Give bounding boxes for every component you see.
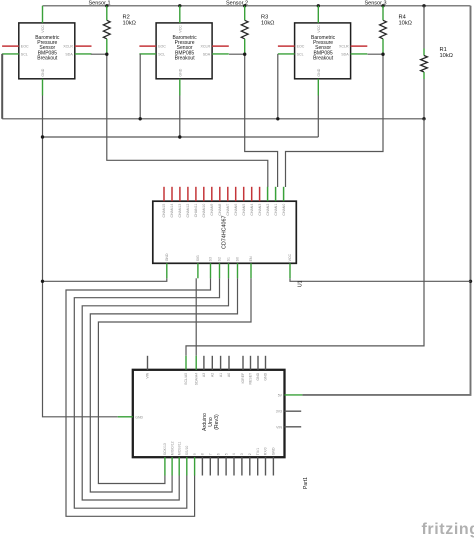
sensor 2 EOC pin leg (unconnected) (139, 45, 156, 47)
node junction SCL bus / R1 bottom (422, 117, 425, 120)
svg-text:SCL: SCL (21, 52, 28, 56)
label Sensor 3 (364, 0, 386, 6)
svg-text:8: 8 (201, 453, 205, 455)
Part1 pin 3V3 leg (right) (276, 410, 301, 414)
svg-text:GND: GND (178, 68, 182, 76)
svg-text:SDA/A4: SDA/A4 (194, 373, 198, 386)
wire sensor2 SCL drop to SCL bus (139, 54, 141, 119)
U1 pin S3 leg (209, 257, 213, 278)
Part1 pin SCK/13 leg (bottom) (163, 443, 167, 475)
sensor 3 SDA pin leg (351, 53, 368, 55)
svg-text:CHAN9: CHAN9 (210, 204, 214, 216)
svg-text:Sensor 3: Sensor 3 (364, 0, 386, 6)
svg-text:GND: GND (256, 372, 260, 380)
Part1 pin 2 leg (bottom) (248, 453, 252, 475)
svg-text:CHAN0: CHAN0 (282, 204, 286, 216)
sensor 2 XCLR pin leg (unconnected) (212, 45, 229, 47)
svg-text:GND: GND (135, 415, 143, 419)
svg-text:SS/10: SS/10 (185, 446, 189, 456)
Part1 pin A2 leg (top) (211, 356, 215, 377)
svg-text:XCLR: XCLR (63, 45, 73, 49)
U1 pin CHAN0 leg (282, 187, 286, 216)
U1 pin CHAN1 leg (274, 187, 278, 216)
svg-text:S0: S0 (236, 257, 240, 261)
Part1 pin A0 leg (top) (227, 356, 231, 377)
U1 pin CHAN8 leg (unconnected) (218, 187, 222, 216)
wire R1/SCL down and across to Arduino SCL pin (186, 119, 424, 356)
svg-text:CHAN14: CHAN14 (170, 204, 174, 218)
svg-text:SDA: SDA (203, 52, 211, 56)
svg-text:10kΩ: 10kΩ (261, 21, 274, 27)
svg-text:GND: GND (41, 68, 45, 76)
sensor 1 GND pin leg (42, 79, 44, 96)
transistor Part1 Arduino Uno (Rev3) box (133, 370, 285, 457)
node junction SCL bus / sensor3 SCL (276, 117, 279, 120)
svg-text:S3: S3 (209, 257, 213, 261)
svg-text:CHAN11: CHAN11 (194, 204, 198, 218)
sensor 3 SCL pin leg (278, 53, 295, 55)
svg-text:CHAN6: CHAN6 (234, 204, 238, 216)
resistor R1 10k pullup SCL bus (421, 6, 453, 119)
Part1 pin TX/1 leg (bottom) (256, 448, 260, 476)
node junction GND bus / sensor1 GND vertical (41, 135, 44, 138)
svg-text:SCL/A5: SCL/A5 (184, 373, 188, 385)
svg-text:SCL: SCL (158, 52, 165, 56)
svg-text:CHAN2: CHAN2 (266, 204, 270, 216)
svg-text:5: 5 (224, 453, 228, 455)
sensor 1 EOC pin leg (unconnected) (2, 45, 19, 47)
svg-text:CHAN12: CHAN12 (186, 204, 190, 218)
sensor 1 SDA pin leg (75, 53, 92, 55)
wire sensor3 SCL drop to SCL bus (277, 54, 279, 119)
svg-text:Part1: Part1 (303, 477, 309, 489)
svg-text:VIN: VIN (146, 372, 150, 378)
U1 pin EN leg (249, 256, 253, 278)
wire sensor2 GND drop to GND bus (179, 96, 181, 138)
wire SCL bus from sensor1 SCL down left edge and across (2, 54, 424, 119)
resistor R2 10k pullup sensor1 SDA (103, 6, 136, 55)
Part1 pin A1 leg (top) (219, 356, 223, 377)
svg-text:fritzing: fritzing (422, 521, 474, 538)
svg-text:VCC: VCC (288, 253, 292, 261)
resistor R3 10k pullup sensor2 SDA (241, 6, 274, 55)
wire 5V rail from sensor1 VCC across top (43, 5, 471, 7)
svg-text:VCC: VCC (317, 25, 321, 33)
label Sensor 1 (88, 0, 110, 6)
Part1 pin VIN leg (right) (276, 425, 301, 429)
svg-text:U1: U1 (298, 280, 304, 287)
svg-text:CHAN7: CHAN7 (226, 204, 230, 216)
svg-text:CHAN8: CHAN8 (218, 204, 222, 216)
U1 pin GND leg (165, 253, 169, 278)
sensor S2 Barometric Pressure Sensor BMP085 Breakout box (156, 23, 212, 79)
sensor 1 XCLR pin leg (unconnected) (75, 45, 92, 47)
node junction 5V rail / R1 top (422, 4, 425, 7)
Part1 pin 8 leg (bottom) (201, 453, 205, 475)
svg-text:10kΩ: 10kΩ (123, 21, 136, 27)
label Part1 (303, 477, 309, 489)
U1 pin CHAN15 leg (unconnected) (162, 187, 166, 218)
svg-text:RX/0: RX/0 (264, 447, 268, 455)
node junction 5V rail / sensor3 VCC (317, 4, 320, 7)
svg-text:CHAN10: CHAN10 (202, 204, 206, 218)
sensor 2 SCL pin leg (139, 53, 156, 55)
svg-text:EN: EN (249, 256, 253, 261)
wire U1 S2 to Arduino digital pin (74, 278, 219, 508)
U1 pin S0 leg (236, 257, 240, 278)
U1 pin CHAN4 leg (unconnected) (250, 187, 254, 216)
svg-text:4: 4 (232, 453, 236, 455)
svg-text:A0: A0 (227, 373, 231, 377)
Part1 pin 5V leg (right) (278, 393, 303, 397)
sensor 3 XCLR pin leg (unconnected) (351, 45, 368, 47)
label fritzing watermark (422, 521, 474, 538)
wire U1 S1 to Arduino digital pin (82, 278, 228, 500)
svg-text:A1: A1 (219, 373, 223, 377)
label Sensor 2 (226, 0, 248, 6)
svg-text:R3: R3 (261, 15, 268, 21)
op-amp U1 multiplexer CD74HC4067 box (153, 201, 296, 263)
svg-text:CHAN5: CHAN5 (242, 204, 246, 216)
resistor R4 10k pullup sensor3 SDA (380, 6, 412, 55)
Part1 pin 6 leg (bottom) (216, 453, 220, 475)
wire U1 S0 to Arduino digital pin (90, 278, 237, 492)
sensor 1 SCL pin leg (2, 53, 19, 55)
wire sensor1 GND down to Arduino GND (43, 96, 118, 417)
Part1 pin 5 leg (bottom) (224, 453, 228, 475)
svg-text:10kΩ: 10kΩ (399, 21, 412, 27)
Part1 pin SDA/A4 leg (top) (194, 356, 198, 385)
U1 pin CHAN6 leg (unconnected) (234, 187, 238, 216)
svg-text:GND: GND (272, 447, 276, 455)
svg-text:XCLR: XCLR (201, 45, 211, 49)
svg-text:MISO/12: MISO/12 (170, 441, 174, 455)
U1 pin S1 leg (227, 257, 231, 278)
node junction GND bus / sensor2 GND (178, 135, 181, 138)
wire sensor3 SDA to R4 to mux CHAN0 (286, 54, 384, 187)
Part1 pin RESET leg (top) (249, 356, 253, 385)
Part1 pin GND2 leg (top) (264, 356, 268, 381)
sensor 3 GND pin leg (317, 79, 319, 96)
svg-text:MOSI/11: MOSI/11 (177, 442, 181, 456)
sensor S1 Barometric Pressure Sensor BMP085 Breakout box (19, 23, 75, 79)
svg-text:10kΩ: 10kΩ (440, 53, 453, 59)
svg-text:VCC: VCC (41, 25, 45, 33)
U1 pin S2 leg (218, 257, 222, 278)
svg-text:A3: A3 (202, 373, 206, 377)
wire 5V down right edge to Arduino 5V pin (302, 6, 470, 395)
U1 pin CHAN2 leg (266, 187, 270, 216)
svg-text:EOC: EOC (21, 45, 29, 49)
svg-text:SCL: SCL (297, 52, 304, 56)
node junction 5V rail / R4 top (381, 4, 384, 7)
wire U1 EN to Arduino digital pin (98, 278, 251, 483)
svg-text:(Rev3): (Rev3) (214, 414, 220, 430)
svg-text:Sensor 2: Sensor 2 (226, 0, 248, 6)
svg-text:IOREF: IOREF (241, 373, 245, 384)
svg-text:RESET: RESET (249, 372, 253, 385)
U1 pin CHAN7 leg (unconnected) (226, 187, 230, 216)
Part1 pin VIN leg (top) (146, 356, 150, 379)
sensor S3 Barometric Pressure Sensor BMP085 Breakout box (295, 23, 351, 79)
node junction GND vertical / U1 GND wire (41, 280, 44, 283)
sensor 2 SDA pin leg (212, 53, 229, 55)
U1 pin CHAN9 leg (unconnected) (210, 187, 214, 216)
Part1 pin 3 leg (bottom) (240, 453, 244, 475)
wire sensor2 SDA to R3 to mux CHAN1 (229, 54, 278, 187)
sensor 2 GND pin leg (179, 79, 181, 96)
svg-text:A2: A2 (211, 373, 215, 377)
U1 pin CHAN14 leg (unconnected) (170, 187, 174, 218)
svg-text:3V3: 3V3 (276, 410, 282, 414)
wire U1 S3 to Arduino digital pin (66, 278, 211, 516)
svg-text:EOC: EOC (297, 45, 305, 49)
wire U1 GND to GND vertical (43, 278, 167, 281)
svg-text:Sensor 1: Sensor 1 (88, 0, 110, 6)
Part1 pin GND leg (top) (256, 356, 260, 381)
svg-text:CHAN4: CHAN4 (250, 204, 254, 216)
U1 pin SIG leg (196, 255, 200, 278)
Part1 pin MOSI/11 leg (bottom) (177, 442, 181, 476)
Part1 pin A3 leg (top) (202, 356, 206, 377)
node junction 5V rail / R3 top (243, 4, 246, 7)
Part1 pin SS/10 leg (bottom) (185, 446, 189, 476)
svg-text:SDA: SDA (341, 52, 349, 56)
U1 pin CHAN13 leg (unconnected) (178, 187, 182, 218)
U1 pin CHAN12 leg (unconnected) (186, 187, 190, 218)
wire GND bus (43, 136, 319, 138)
U1 pin VCC leg (288, 253, 292, 278)
svg-text:S1: S1 (227, 257, 231, 261)
node junction 5V rail / sensor2 VCC (178, 4, 181, 7)
node junction 5V rail / R2 top (105, 4, 108, 7)
svg-text:CHAN15: CHAN15 (162, 204, 166, 218)
node junction R4 bottom / sensor3 SDA (381, 53, 384, 56)
Part1 pin 4 leg (bottom) (232, 453, 236, 475)
svg-text:R4: R4 (399, 15, 406, 21)
U1 pin CHAN5 leg (unconnected) (242, 187, 246, 216)
svg-text:SCK/13: SCK/13 (163, 443, 167, 455)
Part1 pin GND leg (bottom) (272, 447, 276, 476)
node junction SCL bus / sensor2 SCL (139, 117, 142, 120)
U1 pin CHAN11 leg (unconnected) (194, 187, 198, 217)
svg-text:5V: 5V (278, 393, 283, 397)
wire U1 SIG to Arduino SDA pin (195, 278, 197, 356)
Part1 pin 7 leg (bottom) (209, 453, 213, 475)
svg-text:S2: S2 (218, 257, 222, 261)
svg-text:GND: GND (165, 253, 169, 261)
Part1 pin RX/0 leg (bottom) (264, 447, 268, 475)
svg-text:XCLR: XCLR (339, 45, 349, 49)
wire U1 VCC to 5V vertical (290, 278, 471, 281)
label U1 (298, 280, 304, 287)
svg-text:VCC: VCC (178, 25, 182, 33)
svg-text:9: 9 (193, 453, 197, 455)
svg-text:3: 3 (240, 453, 244, 455)
Part1 pin SCL/A5 leg (top) (184, 356, 188, 385)
node junction R3 bottom / sensor2 SDA (243, 53, 246, 56)
wire sensor1 SDA to R2 to mux CHAN2 (91, 54, 268, 187)
svg-text:SDA: SDA (65, 52, 73, 56)
Part1 pin MISO/12 leg (bottom) (170, 441, 174, 475)
node junction R2 bottom / sensor1 SDA (105, 53, 108, 56)
svg-text:R1: R1 (440, 47, 447, 53)
Part1 pin GND leg (left) (118, 415, 144, 419)
svg-text:VIN: VIN (276, 425, 282, 429)
svg-text:R2: R2 (123, 15, 130, 21)
node junction 5V vertical / U1 VCC wire (469, 280, 472, 283)
Part1 pin IOREF leg (top) (241, 356, 245, 384)
sensor 3 EOC pin leg (unconnected) (278, 45, 295, 47)
svg-text:6: 6 (216, 453, 220, 455)
svg-text:GND: GND (264, 372, 268, 380)
svg-text:TX/1: TX/1 (256, 448, 260, 455)
svg-text:2: 2 (248, 453, 252, 455)
sensor 3 VCC pin leg (317, 6, 319, 23)
svg-text:Breakout: Breakout (175, 55, 196, 61)
sensor 2 VCC pin leg (179, 6, 181, 23)
svg-text:CD74HC4067: CD74HC4067 (222, 215, 228, 249)
svg-text:SIG: SIG (196, 255, 200, 261)
svg-text:CHAN3: CHAN3 (258, 204, 262, 216)
sensor 1 VCC pin leg (42, 6, 44, 23)
svg-text:7: 7 (209, 453, 213, 455)
Part1 pin 9 leg (bottom) (193, 453, 197, 475)
svg-text:CHAN13: CHAN13 (178, 204, 182, 218)
U1 pin CHAN10 leg (unconnected) (202, 187, 206, 218)
svg-text:CHAN1: CHAN1 (274, 204, 278, 216)
svg-text:EOC: EOC (158, 45, 166, 49)
svg-text:GND: GND (317, 68, 321, 76)
svg-text:Breakout: Breakout (313, 55, 334, 61)
svg-text:Breakout: Breakout (37, 55, 58, 61)
U1 pin CHAN3 leg (unconnected) (258, 187, 262, 216)
wire sensor3 GND drop to GND bus (317, 96, 319, 138)
